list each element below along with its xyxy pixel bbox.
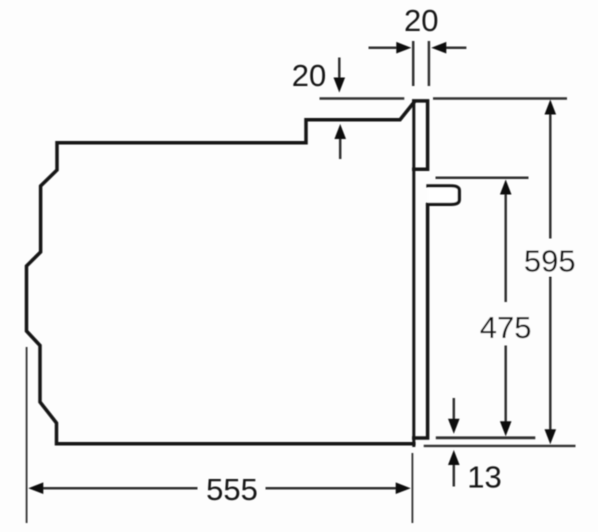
20 width right arrowhead (points left) [431,42,446,54]
475 top arrowhead (points up) [500,180,512,195]
20 height arrow shafts [338,58,341,160]
555 dimension line [42,487,399,490]
555 right arrowhead (points right) [396,482,411,494]
white backing for 475 label [479,306,533,342]
475 bottom arrowhead (points down) [500,421,512,436]
13 lower arrowhead (points up) [448,450,460,465]
555 left arrowhead (points left) [28,482,43,494]
control knob [428,186,459,205]
front panel upper section (control panel) [414,101,428,169]
20 width left arrowhead (points right) [396,42,411,54]
475 extension line [436,177,529,180]
oven door front face and bottom [414,205,428,438]
595 top arrowhead (points up) [545,100,557,115]
top extension line (overall height datum) [320,97,568,100]
svg-text:20: 20 [292,58,326,93]
front panel back edge (door hinge line) [412,102,415,446]
20 height lower arrowhead (points up) [334,124,346,139]
door bottom extension line (13 upper) [436,436,536,439]
595 bottom arrowhead (points down) [545,429,557,444]
oven body outline (left/back profile, top and bottom) [27,102,415,444]
svg-text:20: 20 [404,3,438,38]
13 upper arrowhead (points down) [448,419,460,434]
475 dimension line [504,194,507,423]
555 left extension line [26,347,28,523]
extension line right of 20 width [428,41,431,86]
svg-text:13: 13 [467,460,501,495]
555 right extension line [411,453,413,523]
svg-text:475: 475 [480,310,532,345]
595 dimension line [549,114,552,431]
20 height upper arrowhead (points down) [334,78,346,93]
13 dimension arrow shafts [453,398,456,487]
svg-text:595: 595 [524,244,576,279]
white backing for 595 label [523,240,577,276]
body bottom extension line (13 lower / 595 datum) [424,445,576,447]
extension line left of 20 width [412,41,415,86]
20 width arrow shafts [369,46,467,49]
svg-text:555: 555 [206,472,258,507]
